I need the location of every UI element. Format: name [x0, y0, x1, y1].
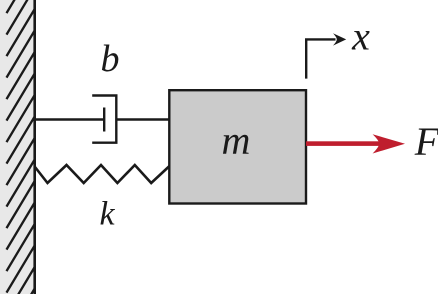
- mass m: [169, 90, 306, 203]
- damper rod left: [35, 118, 105, 120]
- svg-text:F: F: [414, 119, 438, 164]
- force arrow F shaft: [306, 141, 381, 146]
- svg-text:x: x: [351, 14, 370, 59]
- wall: [0, 0, 35, 294]
- damper piston: [103, 108, 105, 132]
- damper rod right: [116, 118, 169, 120]
- x axis bracket: [306, 39, 335, 78]
- x axis arrowhead: [333, 33, 346, 45]
- damper cylinder: [92, 96, 116, 143]
- svg-text:k: k: [99, 196, 115, 233]
- svg-text:b: b: [101, 38, 120, 80]
- svg-text:m: m: [222, 118, 251, 163]
- spring k: [35, 165, 170, 183]
- wall edge line: [33, 0, 36, 294]
- force arrow F head: [373, 134, 405, 153]
- wall hatching: [7, 0, 35, 294]
